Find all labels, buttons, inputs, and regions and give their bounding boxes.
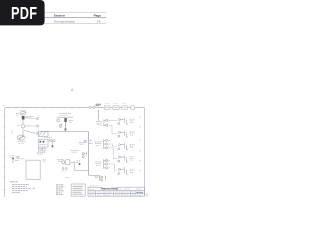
svg-text:PDF: PDF	[11, 4, 37, 23]
svg-text:Tech specification: Tech specification	[54, 20, 76, 24]
svg-text:3-6: 3-6	[97, 20, 101, 24]
svg-text:Section: Section	[54, 14, 65, 18]
svg-text:Thermo King: Thermo King	[100, 186, 118, 190]
svg-text:Page: Page	[94, 14, 102, 18]
